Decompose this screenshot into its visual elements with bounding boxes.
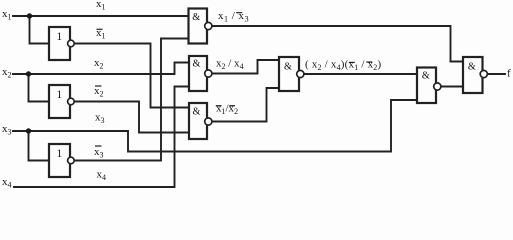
nand gate G2 box	[189, 56, 207, 91]
wire G1 output x1/x3bar to G6 top input	[213, 26, 464, 62]
wire x1bar from U1 to G3 top input	[76, 44, 190, 108]
gate symbol labels	[57, 12, 476, 160]
nand G4 bubble	[297, 70, 304, 77]
inverter U3 bubble	[68, 157, 75, 164]
svg-text:&: &	[193, 59, 201, 70]
nand G3 bubble	[205, 118, 212, 125]
inverter U2 box	[49, 85, 70, 118]
wire x2bar from U2 to G3 bottom input	[76, 102, 190, 133]
nand gate G5 box	[417, 68, 436, 104]
wire G2 output x2/x4 to G4 top input	[211, 60, 279, 74]
inverter U3 box	[49, 144, 70, 177]
svg-text:&: &	[468, 62, 476, 73]
wire x1 to inverter U1	[30, 16, 50, 44]
wire x3 row to G5 bottom input	[13, 100, 417, 152]
nand G1 bubble	[205, 22, 212, 29]
svg-text:f: f	[507, 68, 511, 80]
svg-text:x2 / x4: x2 / x4	[216, 57, 244, 71]
wire x4 row to G2 bottom input	[14, 87, 189, 188]
inverter U2 bubble	[68, 98, 75, 105]
wire G4 output to G5 top input	[303, 73, 417, 75]
svg-text:&: &	[422, 71, 430, 82]
svg-text:&: &	[193, 106, 201, 117]
wire G5 output to G6 bottom input	[440, 86, 463, 88]
wire G6 output f	[487, 73, 505, 75]
wire x1 row	[13, 15, 189, 17]
svg-text:x1 / x3: x1 / x3	[218, 10, 249, 24]
nand gate G6 box	[463, 57, 483, 93]
svg-text:x1: x1	[96, 0, 106, 12]
wire x3 to inverter U3	[29, 131, 50, 161]
node x2 junction	[26, 71, 31, 76]
signal name labels	[2, 0, 511, 190]
svg-text:1: 1	[57, 148, 63, 160]
nand G2 bubble	[205, 70, 212, 77]
nand gate G3 box	[189, 103, 207, 139]
wire x2 row to G2 top input	[13, 63, 189, 75]
nand G5 bubble	[434, 83, 441, 90]
wire x2 to inverter U2	[29, 74, 50, 102]
svg-text:( x2 / x4)(x1 / x2): ( x2 / x4)(x1 / x2)	[305, 58, 381, 72]
inverter U1 bubble	[68, 40, 75, 47]
wire G3 output x1bar/x2bar to G4 bottom input	[211, 88, 279, 122]
svg-text:&: &	[284, 61, 292, 72]
svg-text:&: &	[192, 12, 200, 23]
nand G6 bubble	[480, 70, 487, 77]
nand gate G1 box	[189, 9, 208, 44]
svg-text:1: 1	[57, 89, 63, 101]
wire x3bar from U3 to G1 bottom input	[76, 39, 189, 161]
nand gate G4 box	[279, 57, 299, 91]
node x3 junction	[26, 128, 31, 133]
node x1 junction	[27, 13, 32, 18]
svg-text:1: 1	[57, 31, 63, 43]
inverter U1 box	[49, 27, 70, 60]
